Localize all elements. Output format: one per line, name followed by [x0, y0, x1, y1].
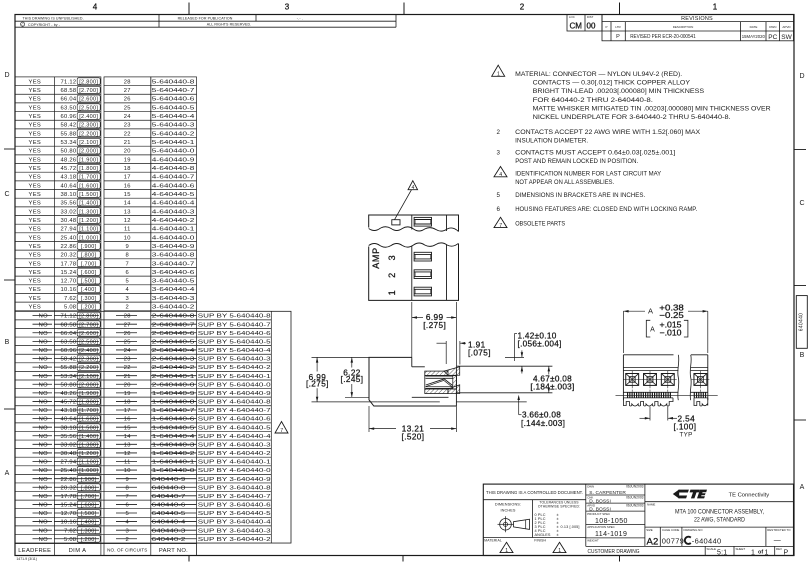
svg-text:[1.800]: [1.800] — [79, 400, 98, 406]
svg-text:[2.500]: [2.500] — [79, 339, 98, 345]
svg-text:[.075]: [.075] — [468, 348, 491, 357]
svg-text:HOUSING FEATURES ARE: CLOSED E: HOUSING FEATURES ARE: CLOSED END WITH LO… — [515, 206, 697, 213]
svg-text:YES: YES — [29, 296, 42, 302]
dim 2.54 typ — [649, 407, 651, 421]
identification mark — [392, 220, 400, 225]
svg-text:OBSOLETE PARTS: OBSOLETE PARTS — [515, 221, 565, 228]
svg-text:4-640440-9: 4-640440-9 — [152, 157, 195, 163]
svg-text:C: C — [4, 191, 9, 198]
svg-text:[2.600]: [2.600] — [79, 331, 98, 337]
svg-text:15: 15 — [124, 192, 131, 198]
svg-text:SIZE: SIZE — [646, 528, 652, 532]
break wavy lines — [678, 355, 679, 400]
svg-text:3-640440-5: 3-640440-5 — [152, 279, 195, 285]
svg-text:[1.900]: [1.900] — [79, 157, 98, 163]
dim A +0.38/-0.25 — [622, 311, 624, 353]
svg-text:50.80: 50.80 — [61, 149, 77, 155]
svg-text:NO: NO — [39, 322, 48, 328]
svg-text:4-640440-8: 4-640440-8 — [152, 166, 195, 172]
dim 6.99/.275 vertical (left) — [312, 356, 370, 358]
note 1 triangle — [492, 65, 505, 76]
svg-text:1-640440-3: 1-640440-3 — [152, 442, 195, 448]
svg-text:of: of — [758, 550, 763, 556]
top view lower fragment outline — [369, 244, 459, 301]
svg-text:30.48: 30.48 — [61, 451, 77, 457]
svg-text:YES: YES — [29, 157, 42, 163]
svg-text:5-640440-3: 5-640440-3 — [152, 123, 195, 129]
svg-text:[1.900]: [1.900] — [79, 391, 98, 397]
svg-text:25: 25 — [124, 105, 131, 111]
svg-text:[1.100]: [1.100] — [79, 460, 98, 466]
svg-text:63.50: 63.50 — [61, 105, 77, 111]
svg-text:15.24: 15.24 — [61, 270, 77, 276]
svg-text:NO. OF CIRCUITS: NO. OF CIRCUITS — [107, 548, 147, 553]
table header row LEADFREE — [15, 544, 197, 556]
svg-text:DIMENSIONS IN BRACKETS ARE IN: DIMENSIONS IN BRACKETS ARE IN INCHES. — [515, 192, 645, 199]
svg-text:A: A — [5, 470, 10, 477]
svg-text:[.300]: [.300] — [81, 528, 97, 534]
svg-text:1: 1 — [751, 549, 755, 556]
svg-text:SHEET: SHEET — [736, 547, 746, 551]
svg-text:CAGE CODE: CAGE CODE — [662, 528, 679, 532]
svg-text:YES: YES — [29, 149, 42, 155]
svg-text:INCHES: INCHES — [501, 508, 516, 512]
svg-text:[2.000]: [2.000] — [79, 149, 98, 155]
svg-text:19: 19 — [124, 391, 131, 397]
svg-text:SUP BY 5-640440-6: SUP BY 5-640440-6 — [198, 331, 271, 337]
centerline — [616, 395, 718, 397]
teeth band — [627, 392, 629, 398]
svg-text:SUP BY 5-640440-3: SUP BY 5-640440-3 — [198, 357, 271, 363]
svg-text:[1.800]: [1.800] — [79, 166, 98, 172]
svg-text:SUP BY 5-640440-5: SUP BY 5-640440-5 — [198, 339, 271, 345]
svg-text:CONTACTS — 0.30[.012] THICK CO: CONTACTS — 0.30[.012] THICK COPPER ALLOY — [533, 80, 690, 87]
svg-text:D: D — [4, 72, 9, 79]
svg-text:5:1: 5:1 — [717, 549, 727, 556]
bottom feet profile — [623, 398, 673, 406]
svg-text:NO: NO — [39, 477, 48, 483]
svg-text:YES: YES — [29, 175, 42, 181]
svg-text:3: 3 — [387, 255, 397, 260]
svg-text:CUSTOMER DRAWING: CUSTOMER DRAWING — [588, 549, 640, 555]
svg-text:2: 2 — [520, 3, 525, 12]
svg-text:640440-9: 640440-9 — [152, 477, 186, 483]
svg-text:43.18: 43.18 — [61, 408, 77, 414]
svg-text:INSULATION DIAMETER.: INSULATION DIAMETER. — [515, 138, 588, 145]
svg-text:1-640440-5: 1-640440-5 — [152, 425, 195, 431]
svg-text:1-640440-0: 1-640440-0 — [152, 468, 195, 474]
svg-text:14: 14 — [124, 201, 132, 207]
svg-text:YES: YES — [29, 270, 42, 276]
svg-text:YES: YES — [29, 79, 42, 85]
svg-text:[2.200]: [2.200] — [79, 131, 98, 137]
svg-text:20.32: 20.32 — [61, 485, 77, 491]
svg-text:114-1019: 114-1019 — [595, 531, 627, 538]
svg-text:POST AND REMAIN LOCKED IN POSI: POST AND REMAIN LOCKED IN POSITION. — [515, 158, 638, 165]
svg-text:[.275]: [.275] — [423, 321, 446, 330]
svg-text:12.70: 12.70 — [61, 279, 77, 285]
svg-text:33.02: 33.02 — [61, 442, 77, 448]
svg-text:71.12: 71.12 — [61, 314, 77, 320]
svg-text:SCALE: SCALE — [707, 547, 717, 551]
svg-text:7.62: 7.62 — [64, 528, 76, 534]
svg-text:−0.25: −0.25 — [659, 311, 684, 320]
svg-text:DWN: DWN — [587, 484, 594, 488]
svg-text:SUP BY 4-640440-7: SUP BY 4-640440-7 — [198, 408, 271, 414]
svg-text:A: A — [650, 326, 655, 333]
svg-text:23: 23 — [124, 357, 131, 363]
svg-text:38.10: 38.10 — [61, 192, 77, 198]
svg-text:40.64: 40.64 — [61, 417, 77, 423]
svg-text:5-640440-2: 5-640440-2 — [152, 131, 195, 137]
svg-text:[2.100]: [2.100] — [79, 374, 98, 380]
dim 6.22/.245 vertical — [345, 396, 369, 398]
svg-text:SUP BY 5-640440-0: SUP BY 5-640440-0 — [198, 382, 271, 388]
svg-text:S. CARPENTER: S. CARPENTER — [589, 490, 626, 496]
svg-text:MATERIAL: CONNECTOR — NYLON UL: MATERIAL: CONNECTOR — NYLON UL94V-2 (RED… — [515, 71, 682, 78]
svg-text:2: 2 — [126, 537, 130, 543]
triangle 4 leader — [408, 181, 418, 190]
svg-text:[.200]: [.200] — [81, 537, 97, 543]
svg-text:7: 7 — [126, 494, 130, 500]
svg-text:YES: YES — [29, 244, 42, 250]
svg-text:[1.000]: [1.000] — [79, 468, 98, 474]
svg-text:68.58: 68.58 — [61, 88, 77, 94]
svg-text:[.700]: [.700] — [81, 261, 97, 267]
svg-text:SUP BY 4-640440-8: SUP BY 4-640440-8 — [198, 400, 271, 406]
svg-text:640440-4: 640440-4 — [152, 520, 187, 526]
svg-text:NO: NO — [39, 460, 48, 466]
svg-text:YES: YES — [29, 123, 42, 129]
svg-text:[1.700]: [1.700] — [79, 408, 98, 414]
obsolete triangle 7 — [275, 422, 288, 434]
svg-text:COPYRIGHT - by -: COPYRIGHT - by - — [28, 23, 61, 27]
svg-text:NO: NO — [39, 408, 48, 414]
svg-text:NO: NO — [39, 528, 48, 534]
svg-text:2-640440-1: 2-640440-1 — [152, 374, 195, 380]
svg-text:[1.300]: [1.300] — [79, 209, 98, 215]
svg-text:PART NO.: PART NO. — [159, 548, 188, 554]
svg-text:5-640440-8: 5-640440-8 — [152, 79, 195, 85]
svg-text:68.58: 68.58 — [61, 322, 77, 328]
svg-text:16: 16 — [124, 183, 131, 189]
svg-text:640440-3: 640440-3 — [152, 528, 186, 534]
svg-text:−.010: −.010 — [660, 329, 683, 338]
svg-text:NICKEL UNDERPLATE FOR 3-640440: NICKEL UNDERPLATE FOR 3-640440-2 THRU 5-… — [533, 114, 731, 121]
svg-text:3-640440-7: 3-640440-7 — [152, 261, 195, 267]
svg-text:C: C — [799, 200, 804, 207]
svg-text:2: 2 — [387, 273, 397, 278]
svg-text:06JUN2003: 06JUN2003 — [626, 503, 644, 507]
svg-text:NO: NO — [39, 425, 48, 431]
svg-text:MTA 100 CONNECTOR ASSEMBLY,: MTA 100 CONNECTOR ASSEMBLY, — [675, 510, 764, 516]
svg-text:18: 18 — [124, 400, 131, 406]
svg-text:SUP BY 3-640440-4: SUP BY 3-640440-4 — [198, 520, 272, 526]
svg-text:THIS DRAWING IS UNPUBLISHED.: THIS DRAWING IS UNPUBLISHED. — [23, 17, 84, 21]
svg-text:108-1050: 108-1050 — [595, 518, 628, 525]
svg-text:SUP BY 4-640440-3: SUP BY 4-640440-3 — [198, 442, 271, 448]
svg-text:YES: YES — [29, 253, 42, 259]
svg-text:LTR: LTR — [615, 25, 621, 29]
svg-text:22 AWG, STANDARD: 22 AWG, STANDARD — [694, 518, 746, 524]
svg-text:-640440: -640440 — [692, 537, 722, 546]
svg-text:NO: NO — [39, 374, 48, 380]
svg-text:[2.800]: [2.800] — [79, 314, 98, 320]
svg-text:1-640440-9: 1-640440-9 — [152, 391, 195, 397]
svg-text:[1.600]: [1.600] — [79, 183, 98, 189]
svg-text:4: 4 — [499, 172, 502, 178]
svg-text:ANGLES: ANGLES — [535, 533, 551, 537]
svg-text:[.900]: [.900] — [81, 244, 97, 250]
svg-text:THIS DRAWING IS A CONTROLLED D: THIS DRAWING IS A CONTROLLED DOCUMENT. — [486, 490, 583, 495]
svg-text:NO: NO — [39, 400, 48, 406]
svg-text:6: 6 — [126, 503, 130, 509]
svg-text:25: 25 — [124, 339, 131, 345]
svg-text:6: 6 — [496, 206, 500, 213]
svg-text:3: 3 — [126, 528, 130, 534]
svg-text:[2.400]: [2.400] — [79, 114, 98, 120]
svg-text:[.500]: [.500] — [81, 279, 97, 285]
svg-text:2-640440-3: 2-640440-3 — [152, 357, 195, 363]
svg-text:A: A — [800, 484, 805, 491]
svg-text:[.800]: [.800] — [81, 485, 97, 491]
svg-text:3-640440-2: 3-640440-2 — [152, 305, 195, 311]
svg-text:[2.600]: [2.600] — [79, 97, 98, 103]
svg-text:RESTRICTED TO: RESTRICTED TO — [767, 528, 791, 532]
svg-text:2-640440-5: 2-640440-5 — [152, 339, 195, 345]
svg-text:21: 21 — [124, 374, 131, 380]
svg-text:TE Connectivity: TE Connectivity — [729, 492, 770, 498]
svg-text:YES: YES — [29, 192, 42, 198]
svg-text:YES: YES — [29, 227, 42, 233]
svg-text:6: 6 — [126, 270, 130, 276]
dim 3.66 +/-0.08 — [518, 399, 520, 415]
svg-text:11: 11 — [124, 227, 131, 233]
svg-text:YES: YES — [29, 279, 42, 285]
svg-text:AMP: AMP — [371, 247, 381, 269]
svg-text:P: P — [616, 34, 620, 40]
svg-text:SUP BY 3-640440-7: SUP BY 3-640440-7 — [198, 494, 271, 500]
svg-text:17: 17 — [124, 408, 131, 414]
svg-text:18: 18 — [124, 166, 131, 172]
svg-text:2-640440-7: 2-640440-7 — [152, 322, 195, 328]
svg-text:NO: NO — [39, 331, 48, 337]
svg-text:SUP BY 3-640440-8: SUP BY 3-640440-8 — [198, 485, 271, 491]
svg-text:27: 27 — [124, 88, 131, 94]
svg-text:ALL RIGHTS RESERVED.: ALL RIGHTS RESERVED. — [207, 23, 252, 27]
svg-text:14: 14 — [124, 434, 132, 440]
svg-text:[.100]: [.100] — [674, 423, 697, 432]
svg-text:35.56: 35.56 — [61, 434, 77, 440]
svg-text:5.08: 5.08 — [64, 537, 76, 543]
svg-text:NO: NO — [39, 382, 48, 388]
svg-text:FOR 640440-2 THRU 2-640440-8.: FOR 640440-2 THRU 2-640440-8. — [533, 97, 654, 104]
svg-text:NAME: NAME — [647, 503, 655, 507]
svg-text:55.88: 55.88 — [61, 365, 77, 371]
svg-text:NO: NO — [39, 391, 48, 397]
svg-text:640440-8: 640440-8 — [152, 485, 186, 491]
svg-text:3-640440-9: 3-640440-9 — [152, 244, 195, 250]
svg-text:4-640440-2: 4-640440-2 — [152, 218, 195, 224]
svg-text:13: 13 — [124, 442, 131, 448]
svg-text:27.94: 27.94 — [61, 227, 77, 233]
svg-text:21: 21 — [124, 140, 131, 146]
svg-text:[1.700]: [1.700] — [79, 175, 98, 181]
svg-text:SUP BY 4-640440-1: SUP BY 4-640440-1 — [198, 460, 271, 466]
svg-text:58.42: 58.42 — [61, 357, 77, 363]
svg-text:22.86: 22.86 — [61, 244, 77, 250]
front view face lines — [623, 367, 678, 369]
svg-text:4-640440-1: 4-640440-1 — [152, 227, 195, 233]
svg-text:5-640440-0: 5-640440-0 — [152, 149, 195, 155]
svg-text:3: 3 — [496, 149, 500, 156]
note 7 triangle — [494, 217, 507, 227]
svg-text:15MAY2020: 15MAY2020 — [742, 34, 766, 39]
top view slots 1-3 — [414, 252, 431, 261]
TE logo and name — [645, 501, 794, 503]
svg-text:2-640440-6: 2-640440-6 — [152, 331, 195, 337]
svg-text:[1.200]: [1.200] — [79, 451, 98, 457]
svg-text:RELEASED FOR PUBLICATION: RELEASED FOR PUBLICATION — [178, 17, 233, 21]
svg-text:[.275]: [.275] — [306, 379, 329, 388]
contact squares — [626, 374, 639, 386]
svg-text:26: 26 — [124, 97, 131, 103]
svg-text:3-640440-8: 3-640440-8 — [152, 253, 195, 259]
svg-text:DRAWING NO: DRAWING NO — [684, 528, 704, 532]
svg-text:4: 4 — [126, 287, 130, 293]
svg-text:TYP: TYP — [680, 431, 693, 438]
svg-text:YES: YES — [29, 97, 42, 103]
svg-text:[2.700]: [2.700] — [79, 88, 98, 94]
svg-text:9: 9 — [126, 477, 130, 483]
svg-text:27: 27 — [124, 322, 131, 328]
svg-text:10.16: 10.16 — [61, 287, 77, 293]
dim 1.91/.075 — [445, 341, 447, 364]
svg-text:-.- .: -.- . — [297, 16, 303, 20]
svg-text:[2.400]: [2.400] — [79, 348, 98, 354]
svg-text:REVISED PER ECR-20-000541: REVISED PER ECR-20-000541 — [630, 34, 696, 40]
svg-text:NO: NO — [39, 451, 48, 457]
svg-text:SUP BY 4-640440-2: SUP BY 4-640440-2 — [198, 451, 271, 457]
svg-text:[.800]: [.800] — [81, 253, 97, 259]
svg-text:1: 1 — [505, 548, 508, 554]
svg-text:11: 11 — [124, 460, 131, 466]
svg-text:WEIGHT: WEIGHT — [587, 538, 599, 542]
svg-text:3-640440-4: 3-640440-4 — [152, 287, 196, 293]
svg-text:24: 24 — [124, 348, 132, 354]
long lines extending right — [456, 365, 552, 367]
svg-text:5-640440-1: 5-640440-1 — [152, 140, 195, 146]
svg-text:38.10: 38.10 — [61, 425, 77, 431]
svg-text:NO: NO — [39, 357, 48, 363]
svg-text:[.200]: [.200] — [81, 305, 97, 311]
svg-text:NO: NO — [39, 537, 48, 543]
svg-text:640440-6: 640440-6 — [152, 503, 186, 509]
svg-text:[.184±.003]: [.184±.003] — [530, 383, 574, 392]
svg-text:27.94: 27.94 — [61, 460, 77, 466]
svg-text:25.40: 25.40 — [61, 235, 77, 241]
svg-text:MATERIAL: MATERIAL — [484, 538, 502, 542]
svg-text:45.72: 45.72 — [61, 166, 77, 172]
svg-text:2-640440-8: 2-640440-8 — [152, 314, 195, 320]
svg-text:1-640440-6: 1-640440-6 — [152, 417, 195, 423]
svg-text:[.300]: [.300] — [81, 296, 97, 302]
controlled document cell — [483, 499, 586, 501]
svg-text:53.34: 53.34 — [61, 140, 77, 146]
svg-text:26: 26 — [124, 331, 131, 337]
svg-text:NO: NO — [39, 485, 48, 491]
svg-text:SUP BY 4-640440-9: SUP BY 4-640440-9 — [198, 391, 271, 397]
TE logo mark — [673, 489, 707, 498]
svg-text:DWN: DWN — [769, 25, 776, 29]
svg-text:APVD: APVD — [782, 25, 791, 29]
svg-text:[.144±.003]: [.144±.003] — [521, 419, 565, 428]
svg-text:60.96: 60.96 — [61, 348, 77, 354]
svg-text:25.40: 25.40 — [61, 468, 77, 474]
svg-text:63.50: 63.50 — [61, 339, 77, 345]
svg-text:66.04: 66.04 — [61, 331, 77, 337]
svg-text:8: 8 — [126, 485, 130, 491]
svg-text:43.18: 43.18 — [61, 175, 77, 181]
svg-text:[.700]: [.700] — [81, 494, 97, 500]
svg-text:P: P — [784, 549, 789, 556]
svg-text:7.62: 7.62 — [64, 296, 76, 302]
svg-text:1-640440-2: 1-640440-2 — [152, 451, 195, 457]
svg-text:LEADFREE: LEADFREE — [18, 548, 51, 554]
svg-text:SUP BY 5-640440-7: SUP BY 5-640440-7 — [198, 322, 271, 328]
svg-text:640440-7: 640440-7 — [152, 494, 186, 500]
svg-text:3-640440-6: 3-640440-6 — [152, 270, 195, 276]
svg-text:20: 20 — [124, 149, 131, 155]
svg-text:YES: YES — [29, 114, 42, 120]
svg-text:4-640440-0: 4-640440-0 — [152, 235, 195, 241]
svg-text:7: 7 — [126, 261, 130, 267]
svg-text:33.02: 33.02 — [61, 209, 77, 215]
svg-text:5: 5 — [126, 279, 130, 285]
svg-text:DATE: DATE — [750, 25, 758, 29]
projection symbol — [500, 519, 512, 531]
svg-text:8: 8 — [126, 253, 130, 259]
svg-text:NO: NO — [39, 365, 48, 371]
svg-text:9: 9 — [126, 244, 130, 250]
svg-text:SUP BY 4-640440-5: SUP BY 4-640440-5 — [198, 425, 271, 431]
svg-text:APPLICATION SPEC: APPLICATION SPEC — [587, 525, 615, 529]
svg-text:[.500]: [.500] — [81, 511, 97, 517]
svg-text:1: 1 — [558, 548, 561, 554]
svg-text:DIST: DIST — [587, 15, 594, 19]
svg-text:NO: NO — [39, 339, 48, 345]
approvals column — [586, 494, 645, 496]
svg-text:YES: YES — [29, 88, 42, 94]
svg-text:[1.400]: [1.400] — [79, 201, 98, 207]
svg-text:YES: YES — [29, 166, 42, 172]
svg-text:[1.200]: [1.200] — [79, 218, 98, 224]
svg-text:[1.300]: [1.300] — [79, 442, 98, 448]
svg-text:SUP BY 3-640440-6: SUP BY 3-640440-6 — [198, 503, 271, 509]
svg-text:[2.800]: [2.800] — [79, 79, 98, 85]
svg-text:17.78: 17.78 — [61, 494, 77, 500]
svg-text:[1.500]: [1.500] — [79, 425, 98, 431]
dimensions / tolerances cells — [585, 484, 587, 546]
svg-text:SUP BY 4-640440-4: SUP BY 4-640440-4 — [198, 434, 272, 440]
svg-text:YES: YES — [29, 131, 42, 137]
svg-text:A2: A2 — [647, 536, 659, 547]
svg-text:55.88: 55.88 — [61, 131, 77, 137]
svg-text:60.96: 60.96 — [61, 114, 77, 120]
svg-text:22.86: 22.86 — [61, 477, 77, 483]
YES rows table grid — [15, 77, 101, 311]
svg-text:SUP BY 5-640440-1: SUP BY 5-640440-1 — [198, 374, 271, 380]
